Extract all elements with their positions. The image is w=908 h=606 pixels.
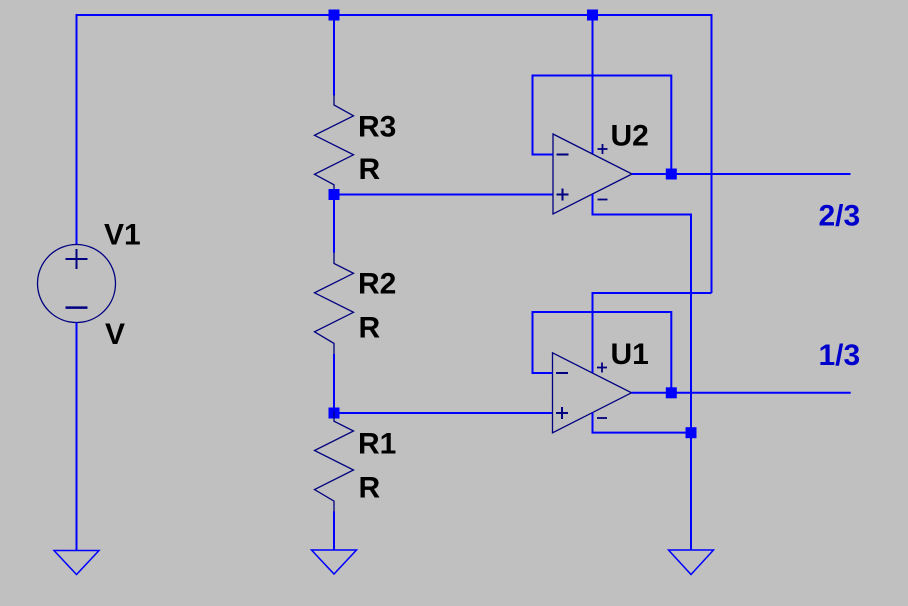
wire from top-right corner down-left to U1 V+ pin	[593, 293, 712, 373]
op-amp U1	[553, 353, 632, 433]
wire U1 feedback loop output to inverting input	[533, 312, 672, 393]
wire U2 output	[632, 173, 851, 175]
ground below V1	[54, 551, 99, 575]
wire R1 bottom to ground	[333, 511, 335, 549]
wire R3/R2 junction down to R2	[333, 195, 335, 253]
resistor R2	[315, 253, 354, 355]
svg-text:V1: V1	[104, 219, 141, 252]
label R2	[358, 268, 396, 301]
node junction U2 output / feedback	[666, 169, 677, 180]
op-amp U2	[553, 134, 632, 214]
ground below R1	[312, 550, 357, 574]
svg-text:R2: R2	[358, 268, 396, 301]
label net 2/3	[819, 200, 861, 233]
svg-text:V: V	[105, 318, 125, 351]
wire U1 V- pin to ground rail	[593, 413, 692, 433]
wire U2 V- pin to ground rail	[593, 194, 692, 550]
ground below op-amps	[669, 550, 714, 575]
wire R2 bottom to R2/R1 junction	[333, 354, 335, 413]
label R1	[358, 428, 396, 461]
wire R3/R2 tap to U2 non-inverting input	[334, 194, 553, 196]
svg-text:U2: U2	[611, 120, 649, 153]
label U1	[611, 338, 649, 371]
svg-text:R: R	[359, 312, 381, 345]
resistor R3	[315, 95, 354, 196]
resistor R1	[315, 411, 354, 512]
wire U2 feedback loop output to inverting input	[533, 76, 672, 175]
svg-text:R: R	[359, 472, 381, 505]
label V1	[104, 219, 141, 252]
node junction U1 output / feedback	[666, 387, 677, 398]
label R value of R3	[359, 153, 381, 186]
node junction top rail / U2 V+	[587, 10, 598, 21]
svg-text:R: R	[359, 153, 381, 186]
node junction R2/R1 tap	[329, 408, 340, 419]
label R value of R1	[359, 472, 381, 505]
svg-text:2/3: 2/3	[819, 200, 861, 233]
wire R2/R1 tap to U1 non-inverting input	[334, 412, 553, 414]
svg-text:1/3: 1/3	[819, 339, 861, 372]
label net 1/3	[819, 339, 861, 372]
svg-text:R3: R3	[358, 111, 396, 144]
label V value of V1	[105, 318, 125, 351]
wire U1 output	[632, 392, 851, 394]
node junction top rail / R3	[329, 10, 340, 21]
wire top rail from V1 to top-right corner	[77, 15, 712, 293]
wire top rail branch down to R3	[333, 15, 335, 96]
wire V1 bottom to ground	[76, 323, 78, 551]
svg-text:R1: R1	[358, 428, 396, 461]
node junction R3/R2 tap	[329, 189, 340, 200]
label R3	[358, 111, 396, 144]
wire U2 V+ pin from top rail	[592, 15, 594, 154]
node junction U1 V- / ground rail	[686, 427, 697, 438]
svg-text:U1: U1	[611, 338, 649, 371]
label U2	[611, 120, 649, 153]
label R value of R2	[359, 312, 381, 345]
voltage source V1	[38, 245, 116, 323]
